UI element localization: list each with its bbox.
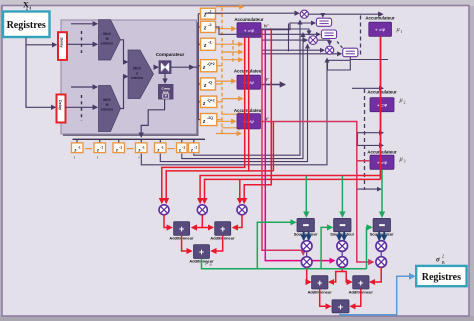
register R1 bbox=[316, 18, 331, 26]
multiplier X2a bbox=[337, 241, 348, 252]
wire navy S3 output arrows to X3a bbox=[378, 232, 380, 240]
svg-text:Accumulateur: Accumulateur bbox=[367, 90, 397, 95]
comparator U5 block bbox=[159, 61, 171, 74]
svg-text:-1: -1 bbox=[182, 145, 185, 149]
register bank U1 "Registres" (input) bbox=[3, 12, 50, 38]
wire mu3 to soustracteur3 purple arrow bbox=[357, 188, 381, 190]
svg-text:μ: μ bbox=[397, 26, 400, 33]
wire z-column left rail bbox=[194, 14, 199, 67]
wire blue variance output to Registres bbox=[340, 276, 415, 315]
svg-text:entrées: entrées bbox=[101, 42, 113, 46]
subtractor S1 block bbox=[297, 218, 314, 231]
svg-text:+: + bbox=[317, 278, 322, 288]
svg-text:+: + bbox=[199, 247, 204, 257]
svg-text:B: B bbox=[210, 263, 212, 267]
wire orange arrow feed y44 bbox=[216, 43, 243, 45]
wire crimson W'3 bus to multiplier 3b bbox=[261, 122, 374, 263]
multiplier XB bbox=[197, 205, 207, 215]
svg-text:+: + bbox=[358, 278, 363, 288]
wire orange arrow feed y133.5 bbox=[216, 133, 241, 135]
svg-text:+ =Ψ: + =Ψ bbox=[377, 160, 388, 165]
wire Registres to Delay1 and Delay2 bbox=[26, 38, 56, 45]
wire X1 output to accumulator mu1 bbox=[308, 13, 382, 15]
wire magenta accu1 to multiplier 2b bbox=[265, 30, 334, 261]
delay element z^-(Q+2) (col box 4) bbox=[201, 60, 217, 72]
svg-text:Soustracteur: Soustracteur bbox=[330, 232, 354, 237]
svg-text:Delay: Delay bbox=[58, 100, 62, 111]
wire feed to multiplier X2 left bbox=[262, 39, 307, 41]
svg-text:2: 2 bbox=[404, 100, 406, 105]
wire dashed link R2 to X3 bbox=[337, 42, 343, 49]
delay element z^-2 (col box 2) bbox=[201, 21, 216, 32]
wire orange arrow feed y98.6 bbox=[222, 98, 243, 100]
svg-text:-1: -1 bbox=[78, 145, 81, 149]
node ellipsis inputs MUX1 (dashed) bbox=[81, 31, 83, 53]
wire X1b output to adder D bbox=[307, 267, 311, 282]
multiplier X2 bbox=[309, 36, 318, 45]
multiplexer U2 "MUX M entrees" (upper) bbox=[99, 20, 121, 60]
wire row box6 output up to cluster bbox=[182, 33, 303, 159]
svg-text:B: B bbox=[442, 260, 445, 265]
wire input arrow to MUX2 top bbox=[71, 86, 97, 88]
multiplexer U3 "MUX M entrees" (lower) bbox=[99, 86, 121, 132]
register R3 bbox=[343, 48, 358, 57]
wire orange link 1-2 bbox=[85, 148, 92, 150]
svg-text:Accumulateur: Accumulateur bbox=[234, 17, 264, 22]
wire comparateur to compteur bbox=[164, 74, 166, 83]
delay element z^-(Q+2) (col box 6) bbox=[201, 96, 217, 107]
wire orange taps from delay boxes bbox=[216, 14, 223, 120]
wire orange arrow feed y59.7 bbox=[222, 59, 243, 61]
accumulator mu3 block bbox=[370, 155, 394, 169]
accumulator mu2 block bbox=[370, 98, 394, 112]
svg-text:z: z bbox=[190, 148, 193, 153]
multiplier XA bbox=[159, 205, 169, 215]
svg-text:-Q: -Q bbox=[208, 80, 212, 84]
wire orange arrow feed y8 bbox=[216, 6, 244, 8]
register R2 bbox=[321, 30, 336, 39]
delay register "Delay" D1 bbox=[58, 32, 67, 60]
svg-text:z: z bbox=[74, 148, 77, 153]
adder C block bbox=[194, 245, 210, 259]
wire red accu1 out drop to y184.7 bbox=[244, 30, 271, 203]
adder E block bbox=[353, 276, 369, 289]
delay element row box 6 bbox=[177, 143, 188, 153]
svg-text:1: 1 bbox=[401, 29, 403, 34]
wire orange link 3-4 bbox=[127, 148, 134, 150]
multiplier X3a bbox=[376, 241, 387, 252]
wire X_i into Registres bbox=[26, 9, 28, 12]
adder A block bbox=[174, 222, 190, 236]
wire orange dashed distribution bus 1 bbox=[221, 8, 223, 135]
delay element z^-2Q (col box 7) bbox=[201, 114, 217, 126]
svg-text:MUX: MUX bbox=[133, 67, 141, 71]
svg-text:entrées: entrées bbox=[101, 108, 113, 112]
wire W'2 output arrow bbox=[261, 84, 285, 86]
svg-text:-1: -1 bbox=[119, 145, 122, 149]
wire orange arrow feed to Accumulateur W2 bbox=[216, 80, 236, 82]
svg-text:-Q+2: -Q+2 bbox=[207, 98, 215, 102]
wire X3b output to adder E bbox=[370, 267, 381, 282]
wire Delay1 to MUX1 bbox=[67, 43, 98, 45]
svg-text:M: M bbox=[106, 103, 109, 107]
register bank U10 "Registres" (output) bbox=[416, 266, 466, 286]
accumulator mu1 block bbox=[369, 22, 392, 36]
multiplier X2b bbox=[337, 257, 348, 268]
wire orange arrow feed y114 bbox=[222, 113, 243, 115]
svg-text:-1: -1 bbox=[100, 145, 103, 149]
multiplier X1 bbox=[300, 10, 308, 18]
svg-text:z: z bbox=[115, 148, 118, 153]
wire XC output to adder B bbox=[233, 215, 242, 228]
wire orange arrow feed y52 bbox=[222, 51, 243, 53]
wire green branch up to soustracteur S2 left bbox=[321, 227, 332, 268]
subtractor S2 block bbox=[334, 218, 351, 231]
svg-text:entrées: entrées bbox=[131, 76, 143, 80]
svg-text:2: 2 bbox=[136, 71, 138, 75]
svg-text:z: z bbox=[96, 148, 99, 153]
wire X2 output to multiplier X3 bbox=[317, 40, 329, 45]
wire mu2 input arrow bbox=[352, 87, 383, 89]
wire orange arrow feed to Accumulateur W1 bbox=[216, 28, 236, 30]
svg-text:-1: -1 bbox=[194, 145, 197, 149]
svg-text:-Q+2: -Q+2 bbox=[207, 62, 215, 66]
delay element row box 2 bbox=[94, 143, 106, 153]
wire red accu1 bottom drop 1 bbox=[162, 37, 245, 203]
adder D block bbox=[312, 276, 328, 289]
svg-text:-2Q: -2Q bbox=[207, 116, 213, 120]
wire comparateur output to z-column rail bbox=[171, 66, 194, 68]
wire feed to register R3 left bbox=[262, 53, 341, 55]
wire orange arrow feed to Accumulateur W3 bbox=[216, 120, 236, 122]
accumulator U7 block bbox=[237, 23, 261, 38]
wire adder B output to adder C bbox=[212, 235, 223, 251]
svg-text:-1: -1 bbox=[161, 145, 164, 149]
multiplier X3b bbox=[376, 257, 387, 268]
svg-text:Soustracteur: Soustracteur bbox=[294, 232, 318, 237]
wire orange link 5-6 bbox=[168, 148, 175, 150]
svg-text:Registres: Registres bbox=[7, 20, 46, 31]
delay element row box 1 bbox=[72, 143, 84, 153]
delay element row box 5 bbox=[155, 143, 167, 153]
delay element row box 3 bbox=[113, 143, 125, 153]
wire MUX2 output to MUX2entrees bbox=[121, 77, 128, 109]
wire orange dashed distribution bus 2 bbox=[232, 40, 234, 62]
svg-text:Delay: Delay bbox=[60, 38, 64, 49]
MUX stage container box bbox=[61, 20, 197, 134]
svg-text:+: + bbox=[338, 302, 343, 312]
wire feed to register R1 left bbox=[261, 23, 315, 30]
svg-text:z: z bbox=[138, 148, 141, 153]
wire row box7 output up to cluster bbox=[194, 21, 300, 156]
svg-text:-1: -1 bbox=[142, 145, 145, 149]
wire red long bus y175.5 to multiplier B bbox=[200, 176, 380, 203]
svg-text:Accumulateur: Accumulateur bbox=[365, 16, 395, 21]
svg-text:MUX: MUX bbox=[103, 98, 111, 102]
wire feed to multiplier X3 left bbox=[262, 49, 324, 51]
accumulator U8 block bbox=[237, 75, 261, 89]
wire z1 output to multiplier X1 bbox=[205, 12, 299, 14]
delay register "Delay" D2 bbox=[57, 95, 66, 123]
svg-text:Accumulateur: Accumulateur bbox=[367, 150, 397, 155]
wire branch down into register R1 bbox=[322, 14, 324, 17]
node ellipsis inputs MUX2 (dashed) bbox=[81, 95, 83, 121]
subtractor S3 block bbox=[373, 218, 390, 231]
wire green mu_B output bus bbox=[202, 259, 367, 269]
wire MUX1 output to MUX2entrees bbox=[121, 40, 128, 62]
wire R3 output to mu1 column bbox=[350, 59, 388, 61]
svg-text:+ =Ψ: + =Ψ bbox=[377, 103, 388, 108]
wire adder E output to adder F bbox=[351, 289, 361, 306]
wire delay row rail bbox=[73, 138, 206, 140]
multiplier X1b bbox=[301, 257, 312, 268]
wire green branch up to soustracteur S3 left bbox=[367, 227, 372, 268]
adder F block bbox=[332, 300, 349, 313]
wire red branch from W'3 bus down to y170.9 bbox=[272, 122, 274, 171]
multiplexer U4 "MUX 2 entrees" bbox=[128, 50, 154, 99]
delay element z^-Q (col box 5) bbox=[201, 78, 216, 90]
counter U6 "Compteur" bbox=[159, 85, 174, 100]
svg-text:μ: μ bbox=[400, 97, 403, 104]
svg-text:z: z bbox=[157, 148, 160, 153]
wire dashed control line for mu2 mu3 bbox=[364, 89, 366, 190]
wire adder A output to adder C bbox=[182, 235, 192, 251]
svg-text:+: + bbox=[179, 224, 184, 234]
wire MUX2entrees to comparateur bbox=[154, 66, 158, 68]
delay element row box 7 bbox=[189, 143, 200, 153]
svg-text:Registres: Registres bbox=[422, 272, 461, 283]
wire rail stubs to delay boxes bbox=[198, 14, 200, 120]
wire red long bus y179.4 bbox=[205, 179, 381, 203]
wire green mean feeds down to soustracteurs bbox=[305, 176, 307, 217]
delay element z^-1 (col box 3) bbox=[201, 38, 216, 50]
wire row box5 output up to cluster bbox=[160, 45, 307, 162]
wire mu2-mu3 link arrows bbox=[358, 132, 384, 134]
svg-text:+: + bbox=[220, 224, 225, 234]
wire z2 output jog to register R2 bbox=[216, 27, 320, 34]
MUX stage container box shadow bbox=[63, 22, 199, 136]
svg-text:M: M bbox=[106, 37, 109, 41]
accumulator U9 block bbox=[237, 114, 261, 129]
svg-text:z: z bbox=[178, 148, 181, 153]
wire R3 feedback loop bbox=[328, 57, 351, 70]
svg-text:+ =Ψ: + =Ψ bbox=[244, 28, 255, 33]
svg-text:X: X bbox=[23, 1, 29, 10]
wire X2b output split to adder D and adder E bbox=[329, 267, 342, 282]
wire compteur output down to delay row rail bbox=[141, 99, 164, 137]
wire row box4 output up to cluster bbox=[141, 59, 327, 165]
wire crimson branch into accumulator mu3 bbox=[357, 160, 370, 162]
wire accu1 output to multiplier X2 top bbox=[261, 29, 309, 35]
delay element z^-1 (col box 1) bbox=[201, 8, 216, 19]
delay element row box 4 bbox=[136, 143, 148, 153]
svg-text:Soustracteur: Soustracteur bbox=[370, 232, 394, 237]
multiplier X1a bbox=[301, 241, 312, 252]
svg-text:μ: μ bbox=[400, 156, 403, 163]
wire navy S1 output arrows to X1a bbox=[303, 232, 305, 240]
wire navy S2 output arrows to X2a bbox=[338, 232, 340, 240]
wire adder D output to adder F bbox=[320, 289, 331, 306]
wire XB output split to adder A and adder B bbox=[192, 215, 202, 228]
multiplier XC bbox=[237, 205, 247, 215]
wire red drop to multiplier C in1 bbox=[239, 179, 241, 203]
wire rail ticks to row boxes bbox=[77, 139, 194, 142]
multiplier X3 bbox=[326, 46, 334, 54]
svg-text:2: 2 bbox=[442, 254, 444, 259]
wire green branch up to soustracteur S1 left bbox=[257, 222, 295, 268]
svg-text:3: 3 bbox=[404, 159, 406, 164]
wire X1a to X1b link bbox=[306, 251, 308, 256]
wire orange arrow feed y127.8 bbox=[222, 127, 243, 129]
wire XA output to adder A bbox=[164, 215, 172, 228]
wire crimson accu1 to multiplier 1b bbox=[262, 30, 303, 255]
wire Delay2 to MUX2 bbox=[66, 106, 98, 108]
wire red mu1 output vertical bbox=[380, 36, 382, 179]
wire red accu1 bottom drop 2 bbox=[166, 37, 249, 203]
adder B block bbox=[215, 222, 231, 236]
wire input arrow to MUX1 top bbox=[71, 23, 97, 25]
svg-text:MUX: MUX bbox=[103, 32, 111, 36]
svg-text:Comparateur: Comparateur bbox=[156, 52, 185, 57]
svg-text:+ =Ψ: + =Ψ bbox=[375, 28, 386, 33]
wire dashed control line for mu1 bbox=[360, 16, 362, 58]
